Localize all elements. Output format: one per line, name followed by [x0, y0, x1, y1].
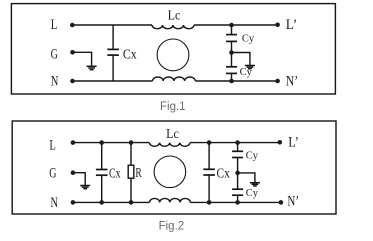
capacitor Cy upper (Fig.1) [226, 25, 237, 53]
node junction Cy bottom (Fig.2) [235, 200, 240, 205]
wire L line left segment (Fig.2) [74, 142, 149, 144]
svg-text:N: N [51, 74, 59, 90]
node L' terminal (Fig.1) [275, 17, 297, 33]
svg-text:Cx: Cx [217, 166, 230, 181]
node junction Cx2 bottom (Fig.2) [207, 200, 212, 205]
node junction Cy middle (Fig.2) [235, 171, 240, 176]
ground near G (Fig.2) [80, 186, 90, 189]
wire N line right segment (Fig.2) [190, 201, 281, 203]
wire G to ground (Fig.1) [74, 52, 92, 65]
svg-text:N: N [51, 195, 59, 211]
svg-text:Fig.1: Fig.1 [160, 101, 186, 113]
svg-text:G: G [51, 46, 58, 62]
svg-text:Cy: Cy [246, 151, 259, 162]
wire N line left segment (Fig.1) [74, 80, 153, 82]
svg-text:Lc: Lc [166, 127, 179, 142]
node junction Cy top (Fig.2) [235, 140, 240, 145]
ground near G (Fig.1) [87, 66, 97, 69]
capacitor Cx (Fig.1) [107, 25, 119, 81]
inductor Lc top winding (Fig.2) [150, 143, 190, 147]
svg-text:Lc: Lc [168, 9, 181, 24]
wire N line left segment (Fig.2) [74, 201, 149, 203]
Fig.1 enclosure box [11, 4, 335, 94]
svg-text:N’: N’ [287, 194, 299, 210]
svg-text:G: G [49, 166, 56, 182]
resistor R (Fig.2) [128, 143, 134, 203]
node L' terminal (Fig.2) [278, 135, 299, 151]
node N (Fig.1) [51, 74, 75, 90]
capacitor Cx input side (Fig.2) [96, 143, 108, 203]
node junction R bottom (Fig.2) [129, 200, 134, 205]
svg-text:Cx: Cx [123, 48, 137, 63]
svg-text:Fig.2: Fig.2 [159, 221, 185, 233]
svg-text:Cy: Cy [242, 34, 255, 45]
Fig.2 enclosure box [12, 121, 336, 214]
capacitor Cy lower (Fig.1) [226, 53, 237, 82]
node G (Fig.2) [49, 166, 75, 182]
node N' terminal (Fig.1) [275, 74, 298, 90]
inductor Lc top winding (Fig.1) [152, 25, 194, 29]
svg-text:L: L [51, 17, 58, 33]
wire L line left segment (Fig.1) [74, 24, 153, 26]
node junction Cy bottom (Fig.1) [229, 79, 234, 84]
node junction Cx1 bottom (Fig.2) [99, 200, 104, 205]
svg-text:Cx: Cx [109, 166, 121, 181]
svg-text:L: L [49, 138, 56, 154]
wire Cy midpoint to ground (Fig.1) [232, 53, 250, 66]
node junction Cy top (Fig.1) [229, 23, 234, 28]
capacitor Cy upper (Fig.2) [232, 143, 243, 173]
inductor Lc core circle (Fig.1) [157, 39, 189, 71]
capacitor Cx output side (Fig.2) [203, 143, 215, 203]
node N' terminal (Fig.2) [279, 194, 299, 210]
ground at Cy midpoint (Fig.2) [250, 183, 260, 186]
inductor Lc core circle (Fig.2) [154, 156, 186, 188]
wire G to ground (Fig.2) [74, 173, 85, 185]
inductor Lc bottom winding (Fig.1) [153, 77, 196, 81]
svg-text:Cy: Cy [240, 67, 253, 78]
svg-text:R: R [135, 166, 142, 181]
node N (Fig.2) [51, 195, 76, 211]
wire N line right segment (Fig.1) [195, 80, 277, 82]
svg-text:L’: L’ [288, 135, 299, 151]
ground at Cy midpoint (Fig.1) [245, 66, 255, 69]
node L (Fig.1) [51, 17, 75, 33]
wire L line right segment (Fig.1) [194, 24, 278, 26]
node junction Cx2 top (Fig.2) [207, 140, 212, 145]
wire Cy midpoint to ground (Fig.2) [238, 173, 255, 182]
node L (Fig.2) [49, 138, 75, 154]
node junction R top (Fig.2) [129, 140, 134, 145]
capacitor Cy lower (Fig.2) [232, 173, 243, 203]
svg-text:L’: L’ [286, 17, 297, 33]
node junction Cx1 top (Fig.2) [99, 140, 104, 145]
node G (Fig.1) [51, 46, 75, 62]
wire L line right segment (Fig.2) [190, 142, 280, 144]
node junction Cy middle (Fig.1) [229, 50, 234, 55]
svg-text:Cy: Cy [246, 188, 259, 199]
svg-text:N’: N’ [286, 74, 298, 90]
inductor Lc bottom winding (Fig.2) [150, 198, 191, 202]
